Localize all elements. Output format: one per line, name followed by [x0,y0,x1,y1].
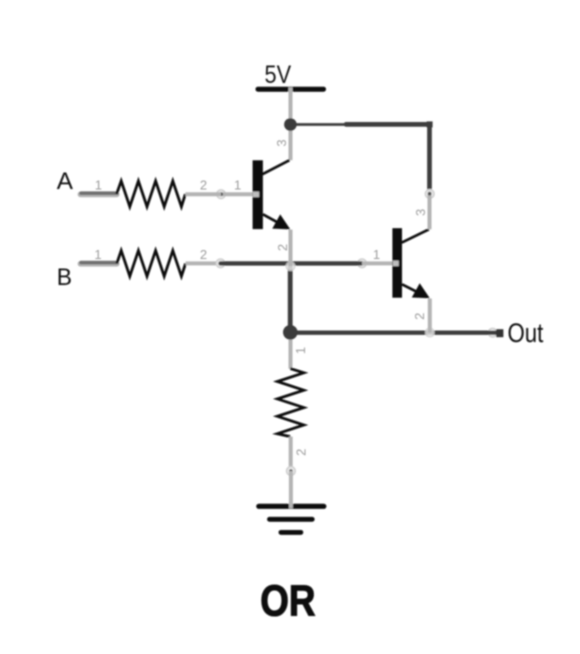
svg-text:1: 1 [293,347,308,354]
svg-text:2: 2 [412,313,427,320]
svg-text:1: 1 [373,247,380,262]
svg-text:5V: 5V [265,62,292,89]
svg-text:A: A [57,169,73,195]
svg-text:3: 3 [413,209,428,216]
svg-text:2: 2 [200,247,207,262]
svg-text:3: 3 [274,139,289,146]
svg-text:Out: Out [508,318,544,348]
svg-text:OR: OR [260,578,315,626]
svg-text:2: 2 [294,449,309,456]
svg-text:2: 2 [275,244,290,251]
svg-text:B: B [57,265,72,291]
svg-text:2: 2 [200,178,207,193]
svg-text:1: 1 [94,247,101,262]
svg-text:1: 1 [95,178,102,193]
svg-text:1: 1 [234,178,241,193]
